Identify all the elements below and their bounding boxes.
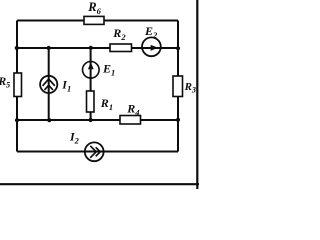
wire right rail <box>177 21 179 152</box>
node E1 top <box>89 46 93 50</box>
EMF source E1 <box>83 62 116 79</box>
node left row2 <box>15 46 19 50</box>
node left row3 <box>15 118 19 122</box>
wire left rail <box>16 21 18 152</box>
node right row3 <box>176 118 180 122</box>
wire middle rail row2 <box>17 47 178 49</box>
wire bottom rail <box>17 151 178 153</box>
wire top rail <box>17 20 178 22</box>
resistor R2 <box>110 26 132 52</box>
resistor R3 <box>173 76 196 97</box>
wire branch E1 R1 <box>90 48 92 120</box>
resistor R1 <box>87 91 114 112</box>
node I1 top <box>47 46 51 50</box>
node R1 bottom <box>89 118 93 122</box>
current source I2 <box>69 129 104 161</box>
node right row2 <box>176 46 180 50</box>
node I1 bottom <box>47 118 51 122</box>
resistor R6 <box>84 0 104 24</box>
EMF source E2 <box>142 24 161 56</box>
current source I1 <box>40 76 71 94</box>
wire branch I1 <box>48 48 50 120</box>
wire middle rail row3 <box>17 119 178 121</box>
resistor R4 <box>120 101 141 124</box>
resistor R5 <box>0 73 22 97</box>
